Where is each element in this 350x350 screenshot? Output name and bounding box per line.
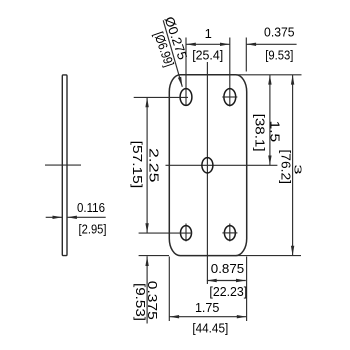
dimension 1.75 arrow right — [237, 315, 247, 318]
front view plate outline — [169, 75, 246, 256]
hole center — [202, 158, 213, 173]
svg-text:0.375: 0.375 — [264, 25, 295, 40]
right hole column extension line upper — [229, 38, 231, 107]
dimension 0.116 [2.95] left tail wire — [46, 216, 62, 218]
leader line for hole diameter callout — [163, 20, 182, 87]
top hole row extension line — [134, 96, 188, 98]
dimension 0.116 arrow left-pointing — [67, 216, 77, 219]
hole bottom-right — [224, 226, 235, 241]
svg-text:[76.2]: [76.2] — [278, 149, 293, 184]
svg-text:1: 1 — [205, 26, 212, 41]
side view horizontal centerline — [45, 164, 81, 166]
svg-text:[2.95]: [2.95] — [79, 222, 107, 237]
hole top-left — [180, 89, 192, 106]
dimension 1.5 [38.1] line — [269, 75, 271, 166]
horizontal centerline of plate — [166, 164, 278, 166]
dimension 1 arrow left — [186, 43, 196, 46]
svg-text:1.5: 1.5 — [268, 121, 283, 143]
svg-text:[9.53]: [9.53] — [133, 283, 148, 321]
dimension 0.375 top arrow left-pointing — [246, 43, 256, 46]
svg-text:0.116: 0.116 — [77, 200, 105, 215]
svg-text:[44.45]: [44.45] — [192, 321, 228, 336]
dimension 0.375 bottom-left arrow up-pointing — [145, 256, 148, 266]
left edge extension line below plate — [168, 257, 170, 322]
dimension 3 [76.2] line — [292, 75, 294, 256]
bottom edge extension line left — [139, 255, 169, 257]
left hole column extension line upper — [185, 38, 187, 107]
dimension 0.375 [9.53] bottom-left tail wire — [146, 256, 148, 323]
dimension 1 [25.4] line — [186, 43, 230, 45]
right hole column tick lower — [229, 224, 231, 242]
dimension 0.875 arrow left — [207, 279, 217, 282]
side view plate outline — [62, 75, 67, 256]
dimension 2.25 [57.15] line — [146, 97, 148, 233]
dimension 1.5 arrow up — [268, 75, 271, 85]
dimension 0.116 arrow right-pointing — [53, 216, 63, 219]
left hole column tick lower — [185, 224, 187, 242]
dimension 1.75 [44.45] line — [169, 316, 246, 318]
bottom edge extension line right — [236, 255, 302, 257]
hole top-right crosshair tick — [222, 96, 237, 98]
dimension 2.25 arrow up — [145, 97, 148, 107]
svg-text:2.25: 2.25 — [146, 148, 161, 183]
dimension 3 arrow up — [291, 75, 294, 85]
dimension 2.25 arrow down — [145, 223, 148, 233]
svg-text:[22.23]: [22.23] — [209, 284, 247, 299]
dimension 1 arrow right — [220, 43, 230, 46]
dimension 0.875 arrow right — [236, 279, 246, 282]
top edge extension line right — [236, 74, 302, 76]
bottom hole row extension line — [139, 232, 193, 234]
leader arrowhead — [178, 77, 182, 87]
right edge extension line above plate — [245, 38, 247, 72]
dimension 0.875 [22.23] line — [207, 280, 246, 282]
svg-text:[9.53]: [9.53] — [265, 47, 293, 62]
svg-text:[25.4]: [25.4] — [192, 47, 223, 62]
dimension 1.5 arrow down — [268, 156, 271, 166]
svg-text:1.75: 1.75 — [195, 300, 220, 315]
hole top-right — [224, 89, 236, 106]
svg-text:0.875: 0.875 — [211, 261, 244, 276]
dimension 1.75 arrow left — [169, 315, 179, 318]
right edge extension line below plate — [246, 257, 248, 322]
hole bottom-left — [181, 226, 192, 241]
dimension 3 arrow down — [291, 246, 294, 256]
vertical centerline of plate — [206, 62, 208, 284]
dimension 0.375 [9.53] top tail wire — [246, 43, 296, 45]
hole bottom-right crosshair tick — [222, 232, 237, 234]
svg-text:[38.1]: [38.1] — [252, 114, 267, 152]
svg-text:[57.15]: [57.15] — [130, 141, 145, 189]
dimension 0.116 [2.95] right tail wire — [67, 216, 106, 218]
